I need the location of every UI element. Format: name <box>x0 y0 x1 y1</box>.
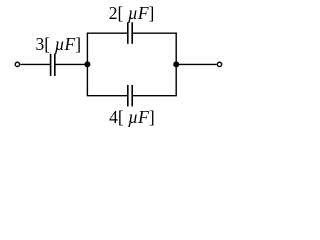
svg-text:4[ µF]: 4[ µF] <box>109 107 155 127</box>
wire: C1 right plate to left junction <box>55 63 87 65</box>
node A (left junction dot) <box>84 61 90 67</box>
node B (right junction dot) <box>173 61 179 67</box>
svg-text:3[ µF]: 3[ µF] <box>36 34 82 54</box>
capacitor C3 4uF (plates) <box>128 85 132 106</box>
capacitor C2 2uF (plates) <box>128 22 132 44</box>
wire: right junction to right terminal <box>176 63 216 65</box>
terminal T2 (right, open circle) <box>217 62 221 66</box>
wire: C2 to top-right corner <box>132 32 177 34</box>
terminal T1 (left, open circle) <box>15 62 19 66</box>
capacitor C1 3uF (plates) <box>51 54 55 76</box>
wire: bottom-left horizontal to C3 <box>87 95 128 97</box>
wire: right vertical of parallel loop <box>175 33 177 95</box>
svg-text:2[ µF]: 2[ µF] <box>109 3 155 23</box>
wire: left vertical of parallel loop <box>86 33 88 95</box>
wire: left terminal to C1 left plate <box>20 63 50 65</box>
wire: C3 to bottom-right corner <box>132 95 177 97</box>
wire: top-left horizontal to C2 <box>87 32 128 34</box>
